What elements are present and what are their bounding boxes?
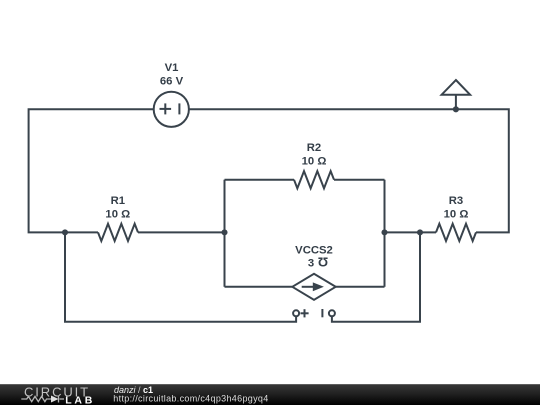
svg-text:R1: R1 (111, 195, 125, 207)
svg-text:3: 3 (308, 258, 314, 270)
svg-text:66 V: 66 V (160, 75, 184, 87)
svg-text:10 Ω: 10 Ω (444, 208, 469, 220)
svg-text:LAB: LAB (65, 394, 95, 405)
svg-text:V1: V1 (165, 62, 179, 74)
svg-text:10 Ω: 10 Ω (105, 208, 130, 220)
svg-text:R3: R3 (449, 195, 463, 207)
svg-text:10 Ω: 10 Ω (302, 155, 327, 167)
svg-text:Ω: Ω (318, 255, 328, 270)
svg-text:http://circuitlab.com/c4qp3h46: http://circuitlab.com/c4qp3h46pgyq4 (113, 394, 268, 404)
svg-text:R2: R2 (307, 142, 321, 154)
